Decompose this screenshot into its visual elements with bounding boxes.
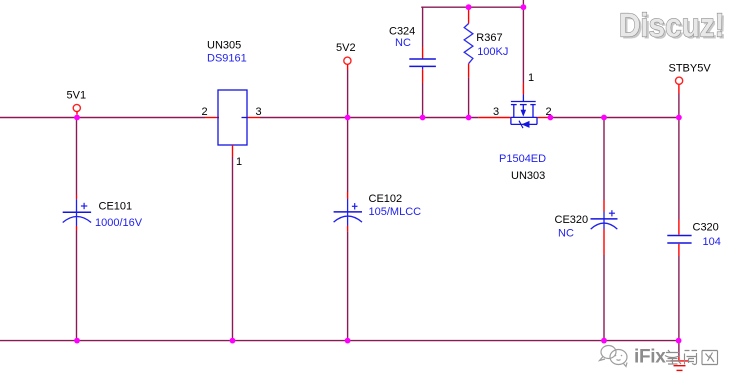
- node CE101 bottom junction: [74, 338, 80, 344]
- op-amp U1 UN305 regulator box: [202, 40, 262, 169]
- node CE102 bottom junction: [345, 338, 351, 344]
- wire main rail middle segment: [260, 117, 479, 119]
- svg-text:CE320: CE320: [555, 214, 589, 226]
- svg-text:CE101: CE101: [99, 201, 133, 213]
- wire C320 to bottom rail: [678, 244, 680, 256]
- svg-text:1000/16V: 1000/16V: [95, 217, 143, 229]
- node R367 top junction: [466, 4, 472, 10]
- transistor Q1 P1504ED UN303 p-channel MOSFET: [493, 95, 552, 183]
- wire CE102 to bottom rail: [347, 226, 349, 232]
- wire Q1 pin 3 stub: [479, 117, 511, 119]
- Discuz! logo: [619, 8, 727, 47]
- capacitor CE101: [63, 199, 143, 229]
- resistor R367: [464, 24, 508, 64]
- wire UN305 pin 3 stub: [247, 117, 261, 119]
- svg-text:CE102: CE102: [369, 193, 403, 205]
- svg-text:UN303: UN303: [511, 170, 545, 182]
- svg-text:NC: NC: [558, 228, 574, 240]
- capacitor CE102: [334, 193, 422, 226]
- wire main rail to CE320: [603, 118, 605, 201]
- svg-text:5V2: 5V2: [336, 42, 356, 54]
- capacitor C324: [389, 25, 436, 69]
- wire CE101 to bottom rail: [76, 226, 78, 231]
- svg-text:R367: R367: [476, 32, 502, 44]
- wire 5V1 to CE101: [76, 118, 78, 196]
- node CE320 top junction: [601, 115, 607, 121]
- ground: [671, 361, 689, 371]
- svg-text:C324: C324: [389, 25, 415, 37]
- wire CE320 to bottom rail: [603, 229, 605, 255]
- wire main rail to C320: [678, 118, 680, 220]
- wire top rail stub up: [522, 0, 524, 7]
- svg-text:NC: NC: [395, 37, 411, 49]
- svg-text:STBY5V: STBY5V: [669, 62, 712, 74]
- wire top rail to R367: [468, 7, 470, 23]
- node 5V2 junction: [345, 115, 351, 121]
- node CE320 bottom junction: [601, 338, 607, 344]
- svg-text:105/MLCC: 105/MLCC: [369, 206, 422, 218]
- wire 5V2 down to main rail: [347, 70, 349, 118]
- wire top rail: [422, 6, 524, 8]
- svg-text:iFix: iFix: [634, 347, 666, 368]
- watermark logo: [600, 346, 628, 367]
- svg-text:Discuz!: Discuz!: [619, 8, 725, 45]
- node C324 junction: [420, 115, 426, 121]
- wire UN305 pin 1 to bottom rail: [232, 145, 234, 157]
- wire R367 to main rail: [468, 64, 470, 78]
- wire main rail left segment: [0, 117, 205, 119]
- svg-text:1: 1: [236, 156, 242, 168]
- svg-text:C320: C320: [693, 222, 719, 234]
- svg-text:104: 104: [703, 236, 721, 248]
- svg-text:DS9161: DS9161: [207, 53, 247, 65]
- svg-text:2: 2: [202, 106, 208, 118]
- wire main rail right segment: [549, 117, 679, 119]
- node ground junction: [676, 338, 682, 344]
- wire UN305 pin 2 stub: [205, 117, 219, 119]
- wire C324 to main rail: [422, 69, 424, 83]
- capacitor C320: [667, 222, 721, 249]
- node 5V1 junction: [74, 115, 80, 121]
- wire bottom rail to ground: [678, 341, 680, 357]
- node Q1 source junction: [548, 115, 554, 121]
- svg-text:3: 3: [256, 106, 262, 118]
- wire top rail to C324: [422, 7, 424, 47]
- svg-text:100KJ: 100KJ: [477, 46, 508, 58]
- svg-text:5V1: 5V1: [67, 90, 87, 102]
- node STBY5V junction: [676, 115, 682, 121]
- wire STBY5V down to main rail: [678, 94, 680, 118]
- capacitor CE320: [555, 210, 618, 239]
- wire top rail corner down to Q1 pin 1: [522, 7, 524, 83]
- svg-text:P1504ED: P1504ED: [499, 153, 546, 165]
- svg-text:1: 1: [528, 72, 534, 84]
- node top rail corner junction: [521, 4, 527, 10]
- wire Q1 pin 2 stub: [537, 117, 549, 119]
- node UN305 pin1 bottom junction: [230, 338, 236, 344]
- svg-text:UN305: UN305: [207, 40, 241, 52]
- watermark text: [634, 347, 666, 368]
- wire bottom rail: [0, 340, 679, 342]
- svg-text:3: 3: [493, 106, 499, 118]
- node R367 bottom junction: [466, 115, 472, 121]
- wire main rail to CE102: [347, 118, 349, 193]
